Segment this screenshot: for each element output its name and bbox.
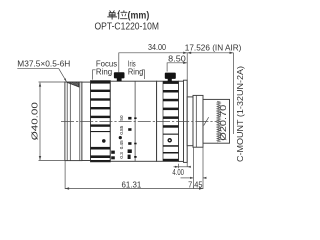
svg-text:61.31: 61.31 bbox=[122, 180, 142, 189]
svg-text:0.45: 0.45 bbox=[119, 140, 124, 149]
svg-text:50: 50 bbox=[119, 115, 124, 121]
svg-text:OPT-C1220-10M: OPT-C1220-10M bbox=[95, 22, 160, 33]
svg-text:4.00: 4.00 bbox=[172, 168, 184, 177]
svg-text:8.50: 8.50 bbox=[168, 54, 186, 64]
svg-text:0.3: 0.3 bbox=[119, 152, 124, 159]
svg-text:Ring: Ring bbox=[128, 67, 144, 77]
svg-text:0.85: 0.85 bbox=[119, 125, 124, 134]
svg-text:7.45: 7.45 bbox=[188, 181, 203, 190]
svg-text:(mm): (mm) bbox=[128, 11, 150, 22]
svg-text:34.00: 34.00 bbox=[148, 43, 166, 52]
svg-text:Ø40.00: Ø40.00 bbox=[30, 101, 39, 140]
svg-text:Ø20.70: Ø20.70 bbox=[219, 104, 228, 141]
svg-text:Ring: Ring bbox=[96, 66, 113, 76]
svg-text:M37.5×0.5-6H: M37.5×0.5-6H bbox=[17, 58, 70, 68]
svg-text:17.526 (IN AIR): 17.526 (IN AIR) bbox=[185, 42, 242, 52]
svg-text:C-MOUNT (1-32UN-2A): C-MOUNT (1-32UN-2A) bbox=[236, 66, 245, 162]
